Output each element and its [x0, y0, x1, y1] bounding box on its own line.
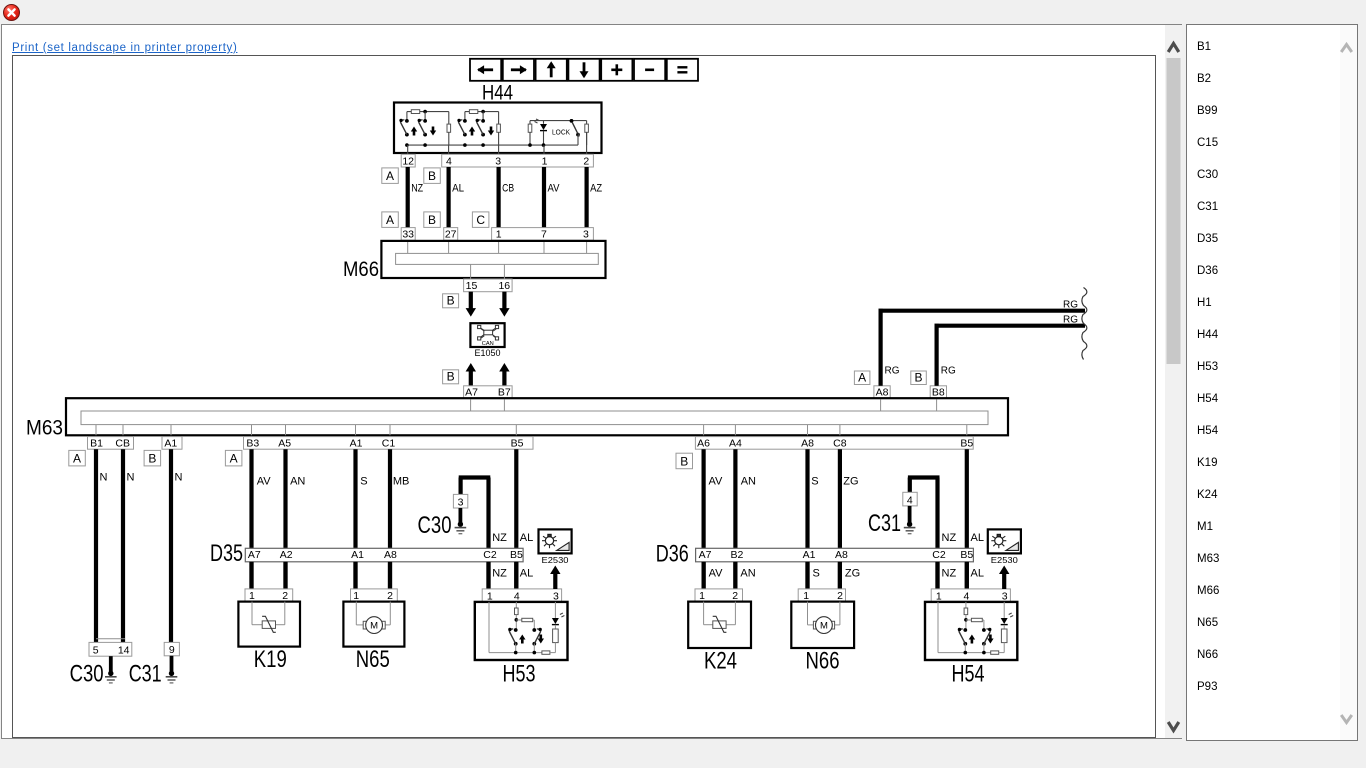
M63 pins A6 A4 A8 C8 B5 box	[695, 437, 973, 450]
svg-text:A8: A8	[384, 549, 397, 561]
M63 pin A1 box	[162, 437, 182, 450]
H44 node g1	[423, 110, 427, 114]
C31 pin 9 box	[164, 642, 179, 655]
C31 ground	[170, 656, 174, 674]
wire AL D35 to H53	[514, 562, 518, 589]
svg-text:K24: K24	[704, 648, 737, 675]
N65 pins 1 2 box	[351, 589, 398, 602]
M63 pin B8 box	[930, 386, 946, 398]
wire AL H44 to M66	[447, 167, 451, 228]
svg-text:NZ: NZ	[492, 568, 507, 580]
svg-text:A1: A1	[350, 438, 363, 450]
svg-text:M: M	[820, 621, 828, 632]
wire NZ D36 to H54	[935, 562, 939, 589]
svg-text:3: 3	[553, 590, 559, 602]
H44 node g2	[481, 110, 485, 114]
svg-text:C1: C1	[382, 438, 396, 450]
svg-text:S: S	[360, 476, 367, 488]
svg-text:3: 3	[458, 496, 464, 508]
motor N65 box	[343, 602, 404, 647]
svg-text:14: 14	[118, 645, 130, 657]
svg-text:A6: A6	[697, 438, 710, 450]
K19 pins 1 2 box	[245, 589, 293, 602]
M63 inner bar	[81, 411, 988, 425]
svg-text:C31: C31	[129, 661, 162, 688]
motor N66 box	[791, 602, 854, 648]
main scrollbar	[1165, 25, 1182, 738]
svg-text:7: 7	[541, 229, 547, 241]
svg-text:1: 1	[487, 590, 493, 602]
svg-text:E1050: E1050	[475, 348, 501, 359]
listbox scrollbar	[1340, 25, 1357, 740]
switch unit H53 box	[475, 602, 568, 660]
connector B box left2	[144, 450, 161, 466]
svg-text:M66: M66	[343, 258, 379, 281]
M66 inner bar	[396, 253, 599, 264]
M63 pins B1 CB box	[88, 437, 134, 450]
E1050 CAN X symbol	[478, 325, 499, 340]
wire S D35 to component	[353, 562, 357, 589]
N66 pins 1 2 box	[798, 589, 845, 602]
H44 resistor R1 vertical	[448, 112, 450, 125]
wire AL D36 to H54	[965, 562, 969, 589]
H44 resistor group2	[469, 110, 477, 114]
svg-text:B1: B1	[90, 438, 103, 450]
svg-text:1: 1	[249, 590, 255, 602]
wire AV H44 to M66	[542, 167, 546, 228]
H44 pin stubs	[407, 145, 409, 154]
svg-text:2: 2	[732, 590, 738, 602]
svg-text:AL: AL	[452, 183, 464, 195]
C30 pin 3 box	[453, 494, 467, 508]
svg-text:NZ: NZ	[942, 532, 957, 544]
svg-text:AV: AV	[548, 183, 561, 195]
C31 pin 4 box	[903, 492, 917, 506]
arrow H54 pin3 to E2530	[1002, 573, 1006, 589]
svg-text:3: 3	[1002, 590, 1008, 602]
toolbar button eq	[667, 59, 698, 81]
toolbar button right	[503, 59, 534, 81]
connector B box near B8	[911, 371, 927, 385]
svg-text:15: 15	[466, 280, 478, 292]
C30 ground mid	[458, 508, 462, 524]
svg-text:A1: A1	[164, 438, 177, 450]
wire NZ H44 to M66	[406, 167, 410, 228]
switch unit H44 box	[394, 103, 602, 154]
svg-text:AN: AN	[741, 476, 756, 488]
toolbar button up	[536, 59, 567, 81]
C30 pins 5 14 box	[89, 642, 132, 656]
N65 motor symbol	[355, 602, 357, 625]
wire AZ H44 to M66	[584, 167, 588, 228]
svg-text:E2530: E2530	[991, 555, 1018, 565]
M66 internal pin lines bottom	[470, 264, 472, 279]
svg-text:N: N	[100, 472, 108, 484]
svg-text:A8: A8	[835, 549, 848, 561]
svg-text:B: B	[915, 370, 923, 384]
svg-text:LOCK: LOCK	[552, 130, 570, 137]
svg-text:4: 4	[907, 494, 913, 506]
svg-text:NZ: NZ	[942, 568, 957, 580]
svg-text:C8: C8	[833, 438, 847, 450]
arrow H53 pin3 to E2530	[553, 573, 557, 589]
H44 resistor R4 vertical	[586, 121, 588, 125]
H54 internals	[937, 602, 939, 653]
M63 internal pin lines	[470, 400, 472, 412]
svg-text:RG: RG	[1063, 298, 1078, 310]
svg-text:M: M	[370, 621, 378, 632]
parts listbox	[1186, 24, 1358, 741]
svg-text:16: 16	[498, 280, 510, 292]
svg-text:B3: B3	[246, 438, 259, 450]
svg-text:H44: H44	[482, 82, 513, 105]
M66 pin 33 box	[401, 228, 415, 241]
svg-text:3: 3	[583, 229, 589, 241]
svg-text:A8: A8	[876, 387, 889, 399]
svg-text:A: A	[73, 452, 81, 466]
svg-text:2: 2	[282, 590, 288, 602]
wire N M63 to ground x123	[121, 449, 125, 642]
svg-text:B5: B5	[510, 549, 523, 561]
svg-text:S: S	[811, 476, 818, 488]
svg-text:AV: AV	[709, 568, 724, 580]
svg-text:C30: C30	[70, 661, 104, 688]
toolbar button plus	[601, 59, 632, 81]
H53 pins 1 4 3 box	[482, 589, 561, 602]
svg-text:2: 2	[837, 590, 843, 602]
M66 pins 15 16 box	[464, 279, 512, 292]
svg-text:A5: A5	[278, 438, 291, 450]
diagram canvas frame	[13, 56, 1156, 738]
toolbar button down	[568, 59, 599, 81]
svg-text:D36: D36	[656, 541, 689, 568]
svg-text:C2: C2	[483, 549, 497, 561]
svg-text:N: N	[127, 472, 135, 484]
connector B box row1	[424, 168, 441, 184]
wire CAN-L E1050 to M63 arrow	[502, 371, 506, 387]
wire MB D35 to component	[388, 562, 392, 589]
svg-text:B2: B2	[730, 549, 743, 561]
H53 internals	[488, 602, 490, 653]
svg-text:4: 4	[446, 155, 452, 167]
C30 ground	[109, 656, 113, 673]
toolbar button left	[470, 59, 501, 81]
C31 ground mid	[908, 506, 912, 524]
wire S M63 to D36	[805, 449, 809, 589]
svg-text:A1: A1	[351, 549, 364, 561]
wire RG from A8	[878, 309, 882, 386]
svg-text:B5: B5	[511, 438, 524, 450]
H44 group1 top wire	[407, 111, 449, 113]
svg-text:H53: H53	[503, 661, 536, 688]
connector B box above M63	[443, 370, 459, 384]
close button	[3, 4, 20, 21]
connector A box left1	[69, 450, 86, 466]
connector A box left3	[225, 450, 242, 466]
wire S D36 to component	[805, 562, 809, 589]
wire CB H44 to M66	[497, 167, 501, 228]
svg-text:N65: N65	[356, 646, 390, 673]
svg-text:2: 2	[387, 590, 393, 602]
svg-text:MB: MB	[393, 476, 410, 488]
offpage torn-edge squiggle	[1082, 288, 1087, 360]
body computer M63 box	[66, 398, 1008, 435]
H44 resistor R3 vertical	[529, 121, 531, 125]
svg-text:33: 33	[402, 229, 414, 241]
svg-text:C30: C30	[418, 512, 452, 539]
H44 resistor R2 vertical	[498, 112, 500, 125]
svg-text:M63: M63	[26, 417, 63, 440]
wire CAN-H M66 to E1050 arrow	[469, 292, 473, 309]
svg-text:A7: A7	[699, 549, 712, 561]
svg-text:ZG: ZG	[843, 476, 858, 488]
K24 pins 1 2 box	[695, 589, 743, 602]
svg-text:AL: AL	[520, 532, 533, 544]
M63 pin A8 box	[874, 386, 890, 398]
svg-text:B: B	[447, 370, 455, 384]
svg-text:C: C	[476, 213, 485, 227]
svg-text:D35: D35	[210, 540, 243, 567]
svg-text:A2: A2	[280, 549, 293, 561]
svg-text:C2: C2	[932, 549, 946, 561]
svg-text:B5: B5	[960, 549, 973, 561]
thermistor K24 box	[688, 602, 751, 648]
wire AV D35 to component	[249, 562, 253, 589]
svg-text:AL: AL	[520, 568, 533, 580]
K19 thermistor symbol	[251, 602, 253, 625]
H44 lock switch S5	[570, 119, 574, 123]
H44 pin 12 box	[401, 154, 415, 167]
svg-text:NZ: NZ	[492, 532, 507, 544]
svg-text:RG: RG	[885, 365, 900, 377]
connector D36 bar	[696, 548, 974, 562]
wire AL M63-B5 to D36	[965, 449, 969, 589]
svg-text:3: 3	[495, 155, 501, 167]
svg-text:ZG: ZG	[845, 568, 860, 580]
wire CAN-H E1050 to M63 arrow	[469, 371, 473, 387]
svg-text:A: A	[230, 452, 238, 466]
svg-text:C31: C31	[868, 510, 901, 537]
svg-text:1: 1	[699, 590, 705, 602]
wire NZ C30 elbow	[459, 478, 463, 495]
svg-text:1: 1	[936, 590, 942, 602]
svg-text:RG: RG	[1063, 314, 1078, 326]
svg-text:A4: A4	[729, 438, 742, 450]
M66 internal pin lines top	[407, 242, 409, 253]
svg-text:N66: N66	[806, 648, 840, 675]
wire AL M63-B5 to D35	[514, 449, 518, 589]
CAN joint E1050 box	[470, 323, 504, 347]
H44 right section top wire	[530, 120, 587, 122]
motor-driver K19 box	[238, 602, 300, 647]
H54 pins 1 4 3 box	[931, 589, 1010, 602]
svg-text:A7: A7	[248, 549, 261, 561]
svg-text:12: 12	[402, 155, 414, 167]
connector A box row1	[382, 168, 399, 184]
H44 switch S2 down	[424, 112, 426, 121]
connector B box near M66 arrows	[443, 294, 459, 308]
wire ZG M63 to D36	[838, 449, 842, 589]
svg-text:S: S	[813, 568, 820, 580]
wire AN D36 to component	[733, 562, 737, 589]
svg-text:B8: B8	[932, 387, 945, 399]
C30 wire link above box	[96, 638, 125, 640]
svg-text:K19: K19	[254, 646, 287, 673]
svg-text:CB: CB	[502, 183, 514, 195]
svg-text:AV: AV	[257, 476, 272, 488]
svg-text:1: 1	[496, 229, 502, 241]
wire AN D35 to component	[283, 562, 287, 589]
svg-text:H54: H54	[952, 661, 985, 688]
svg-text:4: 4	[514, 590, 520, 602]
svg-text:CB: CB	[115, 438, 130, 450]
wire NZ C31 elbow	[908, 478, 912, 493]
svg-text:B: B	[447, 294, 455, 308]
K24 thermistor symbol	[703, 602, 705, 625]
connector D35 bar	[245, 548, 523, 562]
wire NZ D35 to H53	[486, 562, 490, 589]
svg-text:A: A	[386, 213, 394, 227]
M63 pins B3 A5 A1 C1 B5 box	[244, 437, 534, 450]
wire AV M63 to D36	[701, 449, 705, 589]
svg-text:B: B	[428, 169, 436, 183]
wire AN M63 to D35	[283, 449, 287, 589]
svg-text:A: A	[386, 169, 394, 183]
svg-text:AV: AV	[709, 476, 724, 488]
H44 resistor group1	[411, 110, 419, 114]
wire AV D36 to component	[701, 562, 705, 589]
wire MB M63 to D35	[388, 449, 392, 589]
svg-text:A8: A8	[801, 438, 814, 450]
wire AV M63 to D35	[249, 449, 253, 589]
svg-text:B: B	[148, 452, 156, 466]
wire N M63 to ground x96	[94, 449, 98, 642]
H44 switch S1 up	[406, 112, 408, 121]
svg-text:9: 9	[169, 644, 175, 656]
svg-text:B: B	[428, 213, 436, 227]
svg-text:AL: AL	[971, 532, 984, 544]
toolbar button minus	[634, 59, 665, 81]
M63 pins A7 B7 box	[464, 386, 512, 398]
node unit M66 box	[381, 241, 605, 278]
wire S M63 to D35	[353, 449, 357, 589]
H44 switch S3 up	[464, 112, 466, 121]
H44 group2 top wire	[465, 111, 499, 113]
print link	[12, 42, 237, 54]
N66 motor symbol	[807, 602, 809, 625]
svg-text:B: B	[680, 455, 688, 469]
connector C box row2	[472, 212, 489, 228]
svg-text:A1: A1	[803, 549, 816, 561]
svg-text:A: A	[858, 370, 866, 384]
svg-text:1: 1	[353, 590, 359, 602]
svg-text:NZ: NZ	[411, 183, 423, 195]
lamp icon E2530 left	[539, 529, 572, 553]
svg-text:5: 5	[93, 645, 99, 657]
H44 pins 4 3 1 2 box	[442, 154, 594, 167]
connector A box row2	[382, 212, 399, 228]
svg-text:27: 27	[445, 229, 457, 241]
svg-text:AZ: AZ	[590, 183, 602, 195]
svg-text:AN: AN	[290, 476, 305, 488]
svg-text:1: 1	[542, 155, 548, 167]
svg-text:AL: AL	[971, 568, 984, 580]
H44 LED D1	[543, 121, 545, 124]
svg-text:B7: B7	[498, 387, 511, 399]
svg-text:E2530: E2530	[542, 555, 569, 565]
svg-text:2: 2	[583, 155, 589, 167]
connector A box near A8	[854, 371, 870, 385]
wire CAN-L M66 to E1050 arrow	[502, 292, 506, 309]
lamp icon E2530 right	[988, 529, 1021, 553]
connector B box right	[676, 453, 693, 469]
H44 switch S4 down	[482, 112, 484, 121]
M66 pins 1 7 3 box	[492, 228, 594, 241]
svg-text:1: 1	[803, 590, 809, 602]
wire ZG D36 to component	[838, 562, 842, 589]
svg-text:B5: B5	[960, 438, 973, 450]
svg-text:RG: RG	[941, 365, 956, 377]
switch unit H54 box	[925, 602, 1017, 660]
svg-text:N: N	[175, 472, 183, 484]
svg-text:AN: AN	[740, 568, 755, 580]
wire N M63 to ground x171	[169, 449, 173, 642]
svg-text:4: 4	[963, 590, 969, 602]
connector B box row2	[424, 212, 441, 228]
wire AN M63 to D36	[733, 449, 737, 589]
svg-text:A7: A7	[465, 387, 478, 399]
wire RG from B8	[934, 324, 938, 386]
svg-text:CAN: CAN	[482, 341, 494, 347]
M66 pin 27 box	[444, 228, 458, 241]
H44 bottom bus wire	[407, 144, 578, 146]
